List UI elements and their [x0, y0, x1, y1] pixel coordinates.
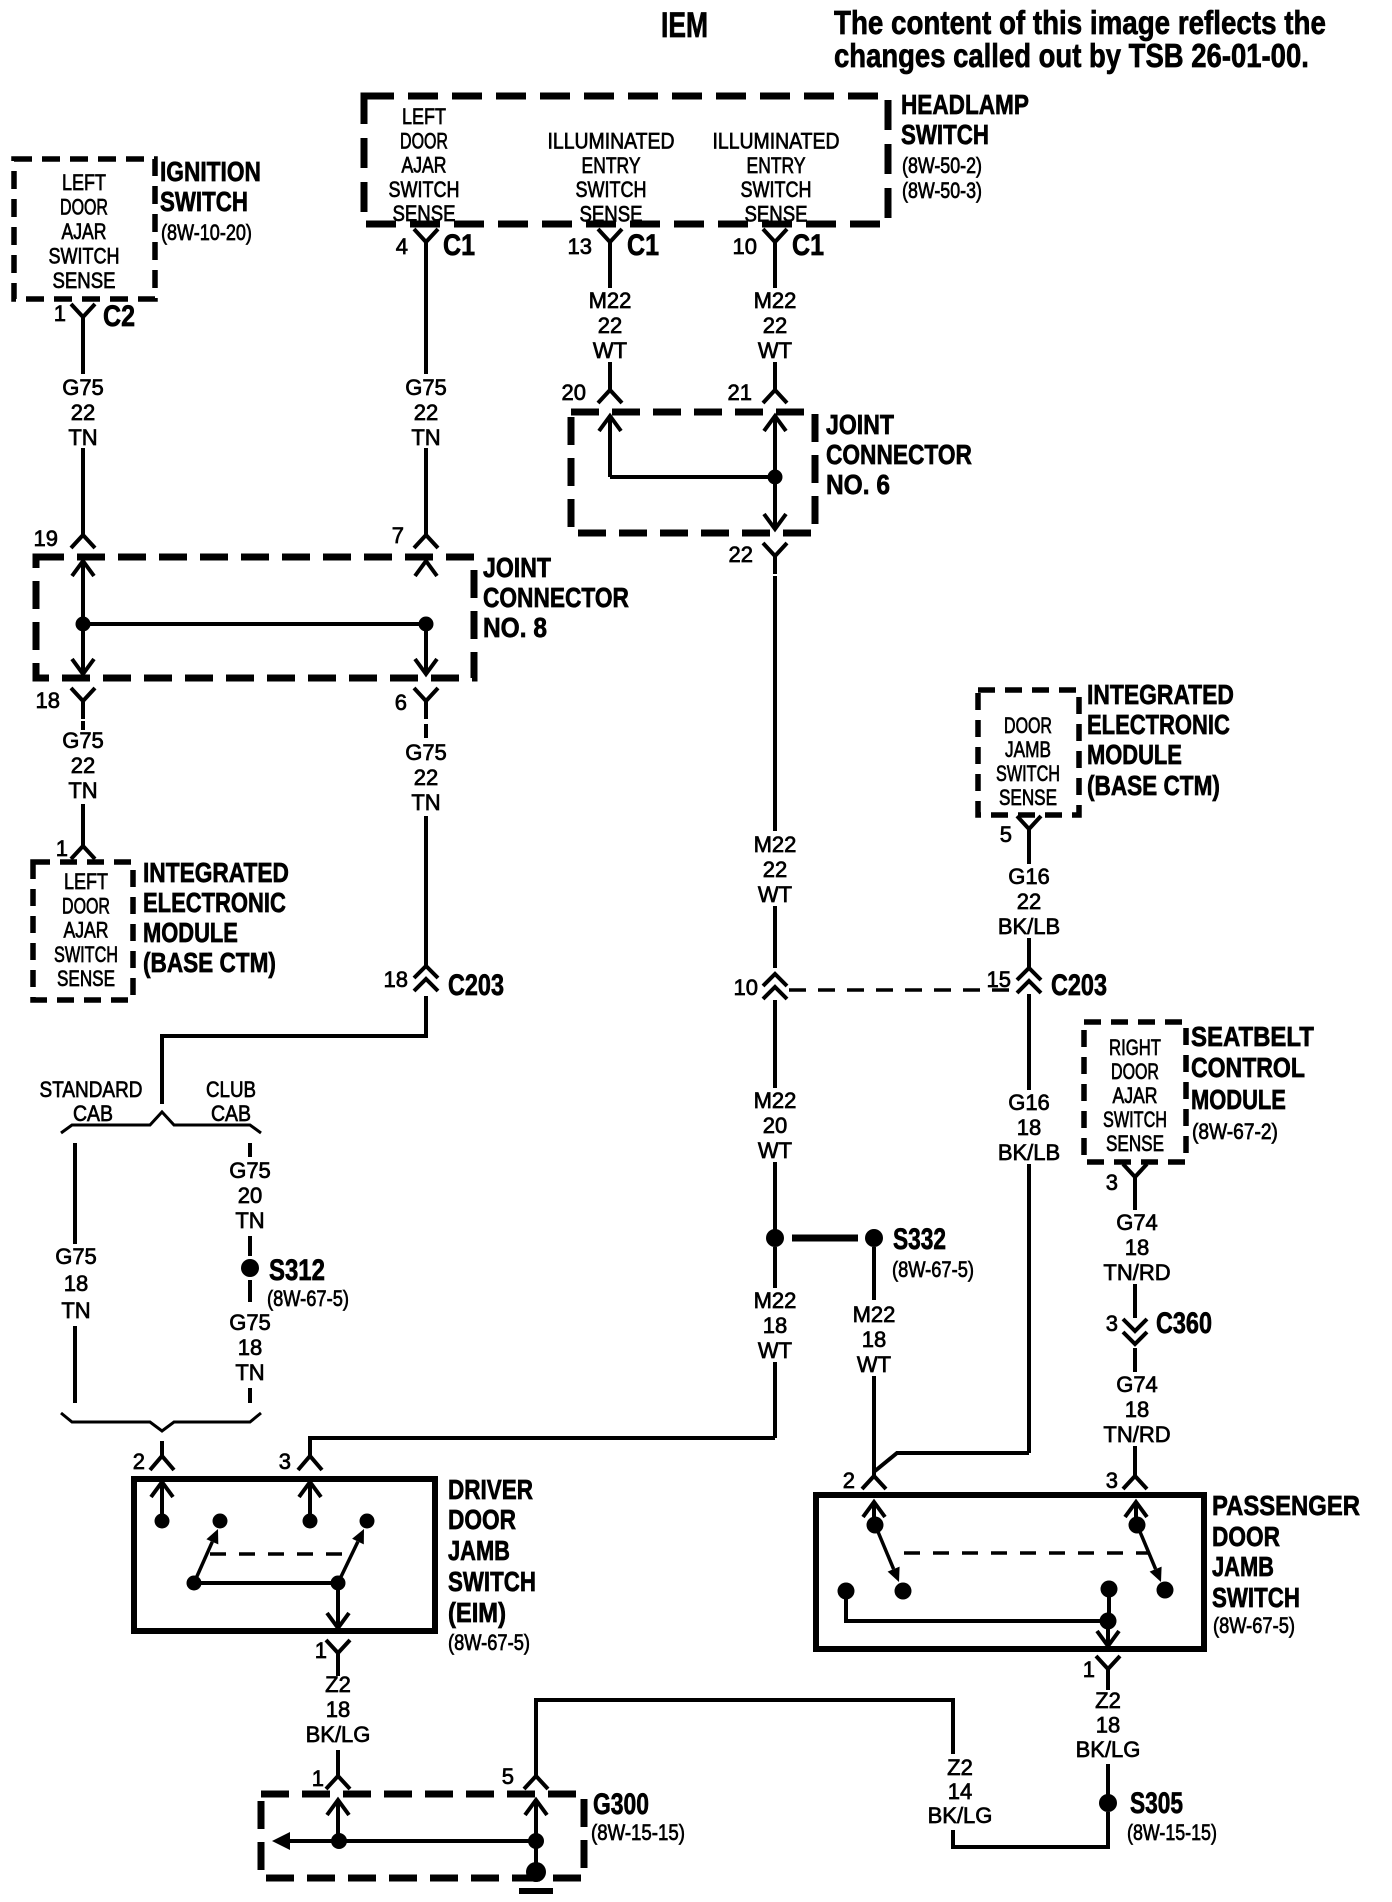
svg-text:3: 3: [279, 1449, 291, 1474]
exit arrow pin 18: [72, 659, 94, 674]
svg-text:LEFT: LEFT: [64, 870, 108, 894]
svg-text:14: 14: [948, 1779, 972, 1804]
connector C203 pin 10 (double chevron): [763, 974, 787, 986]
wire: [608, 362, 612, 382]
svg-text:18: 18: [862, 1327, 886, 1352]
junction dot left: [76, 617, 91, 632]
contact dot driver switch 2 lower: [331, 1576, 346, 1591]
svg-text:22: 22: [1017, 889, 1041, 914]
ground arrow left: [272, 1832, 290, 1850]
pin 3 male fork into driver door jamb switch: [298, 1444, 322, 1470]
svg-text:LEFT: LEFT: [62, 171, 106, 195]
contact dot driver pin 2: [155, 1514, 170, 1529]
svg-text:DRIVER: DRIVER: [448, 1475, 533, 1506]
svg-text:C203: C203: [448, 968, 504, 1001]
svg-text:G75: G75: [229, 1158, 271, 1183]
wire: [872, 1376, 876, 1468]
wire inside joint connector no. 6: [608, 416, 612, 477]
switch arm passenger 1: [876, 1527, 894, 1569]
svg-text:M22: M22: [589, 288, 632, 313]
pin 18 female fork below joint connector no. 8: [71, 688, 95, 719]
svg-text:22: 22: [414, 400, 438, 425]
svg-text:TN: TN: [235, 1208, 264, 1233]
contact dot driver switch 2 upper: [360, 1514, 375, 1529]
entry arrow driver pin 3: [299, 1482, 321, 1497]
svg-text:22: 22: [71, 400, 95, 425]
wire to contact: [872, 1502, 876, 1518]
svg-text:SENSE: SENSE: [999, 786, 1057, 811]
svg-text:18: 18: [384, 967, 408, 992]
svg-text:WT: WT: [593, 338, 627, 363]
svg-text:M22: M22: [754, 1288, 797, 1313]
junction dot joint connector no. 6: [768, 470, 783, 485]
wire M22 below C203 pin 10: [773, 1000, 777, 1088]
splice link S332: [792, 1235, 858, 1242]
svg-text:SWITCH: SWITCH: [54, 944, 118, 968]
svg-text:WT: WT: [758, 882, 792, 907]
contact dot driver switch 1 lower: [187, 1576, 202, 1591]
junction dot passenger output: [1100, 1613, 1117, 1630]
svg-text:22: 22: [71, 753, 95, 778]
wire inside joint connector no. 8 right: [424, 624, 428, 674]
wire: [248, 1280, 252, 1302]
svg-text:CAB: CAB: [73, 1102, 113, 1126]
svg-text:10: 10: [733, 234, 757, 259]
svg-text:BK/LG: BK/LG: [306, 1722, 371, 1747]
wire to passenger pin 1: [1106, 1621, 1110, 1646]
wire inside G300: [336, 1800, 340, 1841]
svg-text:C360: C360: [1156, 1306, 1212, 1339]
svg-text:G74: G74: [1116, 1210, 1158, 1235]
joint connector no. 6 box: [571, 412, 815, 533]
svg-text:M22: M22: [853, 1302, 896, 1327]
svg-text:18: 18: [1017, 1115, 1041, 1140]
wire M22 below S332 right: [872, 1247, 876, 1300]
ground terminal dot: [526, 1862, 546, 1882]
wire G75 below pin 4: [424, 260, 428, 374]
svg-text:G75: G75: [62, 375, 104, 400]
svg-text:SENSE: SENSE: [1106, 1132, 1164, 1157]
pin 7 male fork into joint connector no. 8: [414, 527, 438, 548]
svg-text:INTEGRATED: INTEGRATED: [1087, 680, 1234, 711]
wire inside joint connector no. 8 left: [81, 561, 85, 624]
svg-text:PASSENGER: PASSENGER: [1212, 1489, 1360, 1521]
svg-text:15: 15: [987, 967, 1011, 992]
wire from brace to driver pin 2: [160, 1441, 164, 1444]
joint connector no. 8 box: [36, 557, 474, 678]
svg-text:DOOR: DOOR: [400, 130, 448, 154]
ground bar: [519, 1888, 553, 1894]
svg-text:SENSE: SENSE: [53, 270, 116, 294]
wire to passenger pin 2: [875, 1453, 1029, 1471]
svg-text:G75: G75: [229, 1310, 271, 1335]
svg-text:CONNECTOR: CONNECTOR: [483, 583, 629, 614]
svg-text:20: 20: [238, 1183, 262, 1208]
wire M22 below joint connector no. 6: [773, 576, 777, 831]
svg-text:10: 10: [734, 975, 758, 1000]
pin 3 male fork into passenger door jamb switch: [1123, 1468, 1147, 1489]
connector C1 pin 13 (female fork): [598, 229, 622, 260]
svg-text:19: 19: [34, 526, 58, 551]
wire G74 below C360: [1133, 1348, 1137, 1372]
svg-text:18: 18: [1125, 1235, 1149, 1260]
svg-text:C1: C1: [792, 228, 824, 262]
pin 20 male fork into joint connector no. 6: [598, 382, 622, 403]
svg-text:SWITCH: SWITCH: [448, 1567, 536, 1598]
svg-text:ILLUMINATED: ILLUMINATED: [548, 129, 675, 153]
svg-text:SWITCH: SWITCH: [741, 178, 812, 202]
wire G75 below pin 18: [81, 721, 85, 730]
svg-text:BK/LB: BK/LB: [998, 914, 1060, 939]
svg-text:AJAR: AJAR: [64, 919, 109, 943]
pin 3 female fork below seatbelt module: [1123, 1164, 1147, 1195]
svg-text:7: 7: [392, 523, 404, 548]
svg-text:BK/LB: BK/LB: [998, 1140, 1060, 1165]
svg-text:1: 1: [1083, 1657, 1095, 1682]
integrated electronic module box left (left door ajar switch sense): [33, 862, 133, 1000]
wire M22 below pin 10: [773, 260, 777, 288]
junction dot G300 left: [331, 1833, 347, 1849]
svg-text:DOOR: DOOR: [1004, 715, 1052, 739]
svg-text:C203: C203: [1051, 968, 1107, 1001]
wire Z2: [336, 1671, 340, 1676]
svg-text:Z2: Z2: [325, 1672, 351, 1697]
contact dot passenger switch 1 lower: [895, 1583, 912, 1600]
svg-text:(8W-50-2): (8W-50-2): [902, 154, 982, 178]
svg-text:3: 3: [1106, 1311, 1118, 1336]
svg-text:18: 18: [1125, 1397, 1149, 1422]
pin 5 female fork below module: [1017, 816, 1041, 847]
svg-text:SWITCH: SWITCH: [160, 187, 248, 218]
svg-text:22: 22: [763, 857, 787, 882]
svg-text:AJAR: AJAR: [62, 220, 107, 244]
wire: [773, 906, 777, 968]
svg-text:1: 1: [56, 836, 68, 861]
svg-text:G300: G300: [593, 1787, 649, 1821]
splice dot S305: [1099, 1794, 1117, 1812]
svg-text:JAMB: JAMB: [448, 1535, 510, 1566]
wire output: [846, 1591, 1108, 1621]
wire: [1107, 1588, 1111, 1621]
wire: [1106, 1764, 1110, 1795]
svg-text:WT: WT: [758, 338, 792, 363]
svg-text:18: 18: [1096, 1713, 1120, 1738]
svg-text:G75: G75: [62, 728, 104, 753]
svg-text:20: 20: [763, 1113, 787, 1138]
switch arm driver 1: [194, 1542, 212, 1583]
wire: [1133, 1284, 1137, 1318]
contact dot passenger pin 2: [867, 1517, 884, 1534]
svg-text:(8W-15-15): (8W-15-15): [591, 1822, 685, 1846]
svg-text:RIGHT: RIGHT: [1109, 1036, 1161, 1061]
svg-text:18: 18: [326, 1697, 350, 1722]
exit arrow driver pin 1: [327, 1613, 349, 1628]
contact dot driver pin 3: [303, 1514, 318, 1529]
svg-text:IGNITION: IGNITION: [160, 157, 261, 188]
svg-text:INTEGRATED: INTEGRATED: [143, 858, 289, 889]
wire standard cab branch: [73, 1143, 77, 1244]
exit arrow pin 22: [764, 514, 786, 529]
svg-text:LEFT: LEFT: [402, 105, 446, 129]
switch arm passenger 2: [1138, 1527, 1156, 1569]
svg-text:CONNECTOR: CONNECTOR: [826, 440, 972, 471]
ground G300 box: [261, 1794, 584, 1878]
svg-text:22: 22: [414, 765, 438, 790]
svg-text:G16: G16: [1008, 864, 1050, 889]
svg-text:C1: C1: [627, 228, 659, 262]
seatbelt control module box (right door ajar switch sense): [1084, 1022, 1186, 1162]
entry arrow pin 7: [415, 561, 437, 576]
svg-text:1: 1: [315, 1638, 327, 1663]
ground bus wire: [290, 1839, 536, 1843]
svg-text:CLUB: CLUB: [206, 1079, 256, 1103]
pin 1 female fork below driver switch: [326, 1640, 350, 1671]
svg-text:18: 18: [36, 688, 60, 713]
svg-text:C1: C1: [443, 228, 475, 262]
svg-text:22: 22: [763, 313, 787, 338]
wire: [248, 1388, 252, 1403]
contact dot passenger switch 2 lower: [1157, 1582, 1174, 1599]
entry arrow driver pin 2: [151, 1482, 173, 1497]
svg-text:1: 1: [54, 301, 66, 326]
entry arrow passenger pin 2: [863, 1502, 885, 1517]
svg-text:5: 5: [1000, 822, 1012, 847]
svg-text:(BASE CTM): (BASE CTM): [1087, 771, 1220, 802]
entry arrow pin 20: [599, 416, 621, 431]
pin 2 male fork into passenger door jamb switch: [862, 1468, 886, 1489]
wire G16: [1027, 847, 1031, 864]
svg-text:20: 20: [562, 380, 586, 405]
entry arrow G300 pin 1: [327, 1800, 349, 1815]
wire: [1027, 938, 1031, 968]
svg-text:Z2: Z2: [1095, 1688, 1121, 1713]
svg-text:JAMB: JAMB: [1005, 738, 1051, 762]
svg-text:ELECTRONIC: ELECTRONIC: [143, 888, 286, 919]
svg-text:(EIM): (EIM): [448, 1598, 506, 1628]
contact dot passenger output right upper: [1101, 1581, 1118, 1598]
wire to contact: [308, 1482, 312, 1514]
svg-text:21: 21: [728, 380, 752, 405]
svg-text:S305: S305: [1130, 1786, 1183, 1820]
svg-text:5: 5: [502, 1764, 514, 1789]
svg-text:C2: C2: [103, 299, 135, 333]
svg-text:BK/LG: BK/LG: [1076, 1737, 1141, 1762]
wire to driver pin 3: [310, 1438, 775, 1444]
svg-text:TN: TN: [68, 425, 97, 450]
svg-text:AJAR: AJAR: [402, 154, 447, 178]
svg-text:JAMB: JAMB: [1212, 1551, 1274, 1582]
svg-text:Z2: Z2: [947, 1755, 973, 1780]
contact dot passenger output left: [838, 1583, 855, 1600]
connector C203 pin 15 (double chevron): [1017, 968, 1041, 980]
svg-text:MODULE: MODULE: [1191, 1085, 1286, 1116]
svg-text:SWITCH: SWITCH: [389, 178, 460, 202]
entry arrow passenger pin 3: [1125, 1502, 1147, 1517]
driver door jamb switch box: [134, 1479, 435, 1631]
svg-text:TN: TN: [235, 1360, 264, 1385]
wire: [81, 804, 85, 838]
cab split brace top: [61, 1112, 261, 1133]
svg-text:DOOR: DOOR: [448, 1505, 516, 1536]
svg-text:M22: M22: [754, 288, 797, 313]
svg-text:ELECTRONIC: ELECTRONIC: [1087, 710, 1230, 741]
svg-text:13: 13: [568, 234, 592, 259]
svg-text:SENSE: SENSE: [745, 203, 808, 227]
svg-text:1: 1: [312, 1766, 324, 1791]
svg-text:(8W-67-5): (8W-67-5): [448, 1632, 530, 1656]
splice dot S312: [241, 1259, 259, 1277]
wire to ground: [534, 1800, 538, 1874]
wire: [773, 416, 777, 529]
svg-text:(8W-67-2): (8W-67-2): [1192, 1120, 1278, 1145]
svg-text:ENTRY: ENTRY: [582, 154, 641, 178]
svg-text:18: 18: [238, 1335, 262, 1360]
svg-text:(8W-67-5): (8W-67-5): [892, 1259, 974, 1283]
wire down to cab split: [162, 996, 426, 1104]
exit arrow pin 6: [415, 659, 437, 674]
svg-text:JOINT: JOINT: [483, 553, 551, 584]
wire: [336, 1750, 340, 1768]
svg-text:(8W-50-3): (8W-50-3): [902, 179, 982, 203]
connector C203 pin 18 (double chevron): [414, 966, 438, 978]
wire G75 below joint connector no. 8 pin 6: [424, 724, 428, 738]
wire: [81, 448, 85, 527]
svg-text:DOOR: DOOR: [62, 895, 110, 919]
svg-text:22: 22: [598, 313, 622, 338]
svg-text:M22: M22: [754, 832, 797, 857]
connector C1 pin 4 (female fork): [414, 229, 438, 260]
svg-text:SENSE: SENSE: [57, 967, 115, 992]
exit arrow passenger pin 1: [1097, 1631, 1119, 1646]
svg-text:18: 18: [64, 1271, 88, 1296]
svg-text:STANDARD: STANDARD: [40, 1078, 143, 1103]
pin 2 male fork into driver door jamb switch: [150, 1444, 174, 1470]
connector C360 pin 3 (double chevron down): [1123, 1319, 1147, 1331]
svg-text:S332: S332: [893, 1222, 946, 1256]
svg-text:G75: G75: [405, 375, 447, 400]
svg-text:The content of this image refl: The content of this image reflects the: [834, 5, 1326, 42]
svg-text:SWITCH: SWITCH: [996, 763, 1060, 787]
pin 19 male fork into joint connector no. 8: [71, 527, 95, 548]
wire: [424, 448, 428, 527]
integrated electronic module box (door jamb switch sense): [978, 690, 1079, 815]
wire: [773, 362, 777, 382]
svg-text:S312: S312: [269, 1252, 325, 1286]
svg-text:IEM: IEM: [661, 5, 708, 44]
pin 1 male fork into integrated electronic module: [71, 838, 95, 859]
wire: [424, 816, 428, 966]
wire G74: [1133, 1195, 1137, 1210]
wire club cab branch: [248, 1143, 252, 1157]
wire: [248, 1236, 252, 1256]
svg-text:ILLUMINATED: ILLUMINATED: [713, 129, 840, 153]
svg-text:NO. 8: NO. 8: [483, 611, 547, 643]
svg-text:2: 2: [133, 1449, 145, 1474]
svg-text:DOOR: DOOR: [1111, 1061, 1159, 1085]
connector C1 pin 10 (female fork): [763, 229, 787, 260]
svg-text:WT: WT: [758, 1338, 792, 1363]
svg-text:22: 22: [729, 542, 753, 567]
svg-text:SEATBELT: SEATBELT: [1191, 1020, 1314, 1052]
svg-text:M22: M22: [754, 1088, 797, 1113]
svg-text:ENTRY: ENTRY: [747, 154, 806, 178]
passenger door jamb switch box: [816, 1495, 1204, 1649]
wire G16 below C203 pin 15: [1027, 994, 1031, 1090]
svg-text:(8W-67-5): (8W-67-5): [1213, 1615, 1295, 1639]
svg-text:SENSE: SENSE: [580, 203, 643, 227]
svg-text:MODULE: MODULE: [1087, 740, 1182, 771]
svg-text:changes called out by TSB 26-0: changes called out by TSB 26-01-00.: [834, 39, 1309, 75]
wire Z2 14 from G300 pin 5 to S305: [536, 1700, 953, 1768]
wire between lower contacts: [194, 1581, 338, 1585]
junction dot S332 right: [865, 1229, 883, 1247]
dashed connector line C203: [789, 988, 1012, 992]
junction dot G300 right: [528, 1833, 544, 1849]
svg-text:3: 3: [1106, 1468, 1118, 1493]
svg-text:BK/LG: BK/LG: [928, 1803, 993, 1828]
pin 5 male fork into G300: [524, 1768, 548, 1789]
svg-text:(8W-10-20): (8W-10-20): [161, 221, 252, 245]
svg-text:TN: TN: [61, 1298, 90, 1323]
wire: [773, 1162, 777, 1238]
svg-text:AJAR: AJAR: [1113, 1084, 1158, 1108]
wire Z2: [1106, 1687, 1110, 1690]
svg-text:WT: WT: [758, 1138, 792, 1163]
svg-text:TN/RD: TN/RD: [1103, 1260, 1170, 1285]
svg-text:(8W-67-5): (8W-67-5): [267, 1288, 349, 1312]
entry arrow pin 19: [72, 561, 94, 576]
wire G75 from ignition switch: [81, 335, 85, 374]
mechanical link dashed: [904, 1551, 1148, 1555]
svg-text:3: 3: [1106, 1170, 1118, 1195]
ignition switch box (left door ajar switch sense): [14, 159, 155, 299]
wire: [1027, 1164, 1031, 1453]
svg-text:MODULE: MODULE: [143, 918, 238, 949]
svg-text:SWITCH: SWITCH: [576, 178, 647, 202]
wire: [1133, 1446, 1137, 1468]
svg-text:(8W-15-15): (8W-15-15): [1127, 1821, 1217, 1845]
svg-text:G16: G16: [1008, 1090, 1050, 1115]
mechanical link dashed: [210, 1552, 345, 1556]
wire M22 below pin 13: [608, 260, 612, 288]
wire M22 below S332 left: [773, 1247, 777, 1288]
svg-text:TN/RD: TN/RD: [1103, 1422, 1170, 1447]
contact dot passenger pin 3: [1129, 1517, 1146, 1534]
svg-text:HEADLAMP: HEADLAMP: [901, 90, 1029, 121]
switch arm driver 2: [338, 1542, 358, 1583]
wire to contact: [1134, 1502, 1138, 1518]
svg-text:CONTROL: CONTROL: [1191, 1053, 1305, 1084]
svg-text:(BASE CTM): (BASE CTM): [143, 948, 276, 979]
svg-text:SWITCH: SWITCH: [901, 120, 989, 151]
entry arrow pin 21: [764, 416, 786, 431]
svg-text:4: 4: [396, 234, 408, 259]
wire to driver pin 1: [336, 1583, 340, 1628]
junction dot right: [419, 617, 434, 632]
contact dot driver switch 1 upper: [213, 1514, 228, 1529]
svg-text:WT: WT: [857, 1352, 891, 1377]
svg-text:SWITCH: SWITCH: [49, 245, 120, 269]
pin 1 female fork below passenger switch: [1096, 1656, 1120, 1687]
svg-text:DOOR: DOOR: [60, 196, 108, 220]
wire to contact: [160, 1482, 164, 1514]
pin 1 male fork into G300: [326, 1768, 350, 1789]
pin 21 male fork into joint connector no. 6: [763, 382, 787, 403]
connector C2 pin 1 (female fork): [71, 304, 95, 335]
svg-text:G75: G75: [55, 1244, 97, 1269]
svg-text:G75: G75: [405, 740, 447, 765]
pin 6 female fork below joint connector no. 8: [414, 688, 438, 719]
